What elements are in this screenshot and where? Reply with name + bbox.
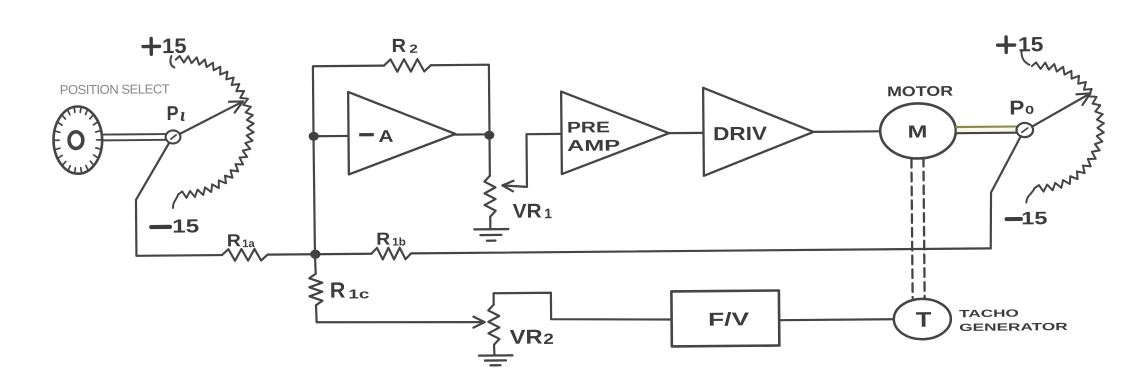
svg-text:15: 15 [172, 216, 200, 237]
svg-text:1c: 1c [348, 286, 369, 301]
svg-text:A: A [378, 127, 393, 146]
svg-text:F/V: F/V [708, 308, 750, 329]
svg-text:VR: VR [513, 201, 543, 223]
svg-text:AMP: AMP [567, 137, 620, 154]
svg-text:1: 1 [544, 205, 552, 221]
svg-text:POSITION SELECT: POSITION SELECT [60, 81, 170, 97]
svg-text:GENERATOR: GENERATOR [959, 321, 1068, 334]
svg-text:M: M [908, 121, 928, 141]
svg-text:R: R [227, 230, 242, 250]
svg-text:1a: 1a [242, 238, 255, 250]
svg-text:P: P [1009, 97, 1024, 119]
svg-text:TACHO: TACHO [959, 308, 1019, 321]
svg-text:VR: VR [510, 326, 544, 348]
svg-text:P: P [167, 103, 179, 125]
svg-text:15: 15 [162, 35, 187, 58]
svg-text:o: o [1025, 101, 1034, 118]
svg-text:2: 2 [409, 42, 418, 56]
svg-text:MOTOR: MOTOR [887, 83, 953, 100]
svg-text:DRIV: DRIV [713, 124, 768, 145]
svg-text:15: 15 [1018, 33, 1043, 56]
svg-text:R: R [330, 277, 346, 302]
svg-text:15: 15 [1021, 208, 1047, 228]
svg-text:PRE: PRE [567, 119, 610, 136]
svg-text:R: R [376, 229, 391, 249]
svg-text:T: T [916, 309, 932, 332]
svg-text:1b: 1b [392, 236, 406, 248]
svg-text:R: R [391, 36, 406, 57]
svg-text:2: 2 [543, 331, 554, 348]
svg-text:ι: ι [180, 105, 186, 126]
